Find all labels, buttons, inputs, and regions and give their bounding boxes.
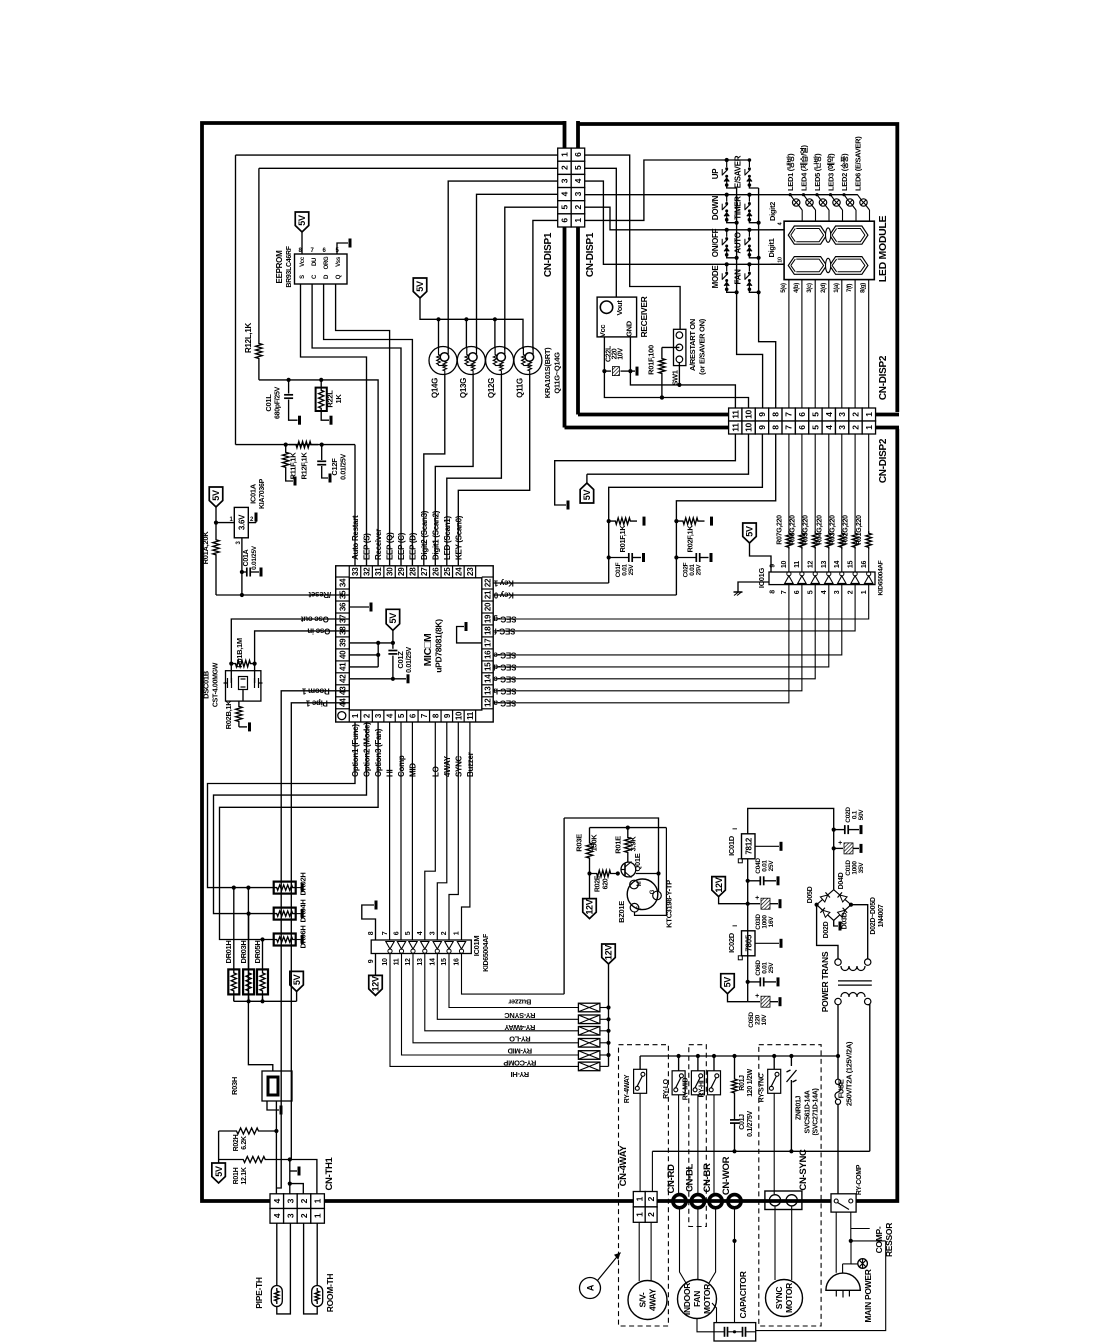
svg-text:(or E/SAVER ON): (or E/SAVER ON) [698,318,707,375]
svg-text:40: 40 [339,650,348,659]
svg-text:7: 7 [784,412,794,417]
svg-text:D04D: D04D [838,872,845,889]
svg-text:Digit1: Digit1 [767,238,776,257]
svg-text:C01J: C01J [739,1114,746,1130]
svg-text:DR06H: DR06H [299,925,308,948]
svg-text:15: 15 [441,958,448,966]
svg-text:Pipe 1: Pipe 1 [305,699,328,708]
svg-text:CN-WOR: CN-WOR [721,1156,732,1195]
relay contact RY-SYNC [773,1056,775,1069]
svg-text:20: 20 [484,602,493,611]
svg-text:3: 3 [573,191,583,196]
connector CN-WOR [728,1195,741,1208]
svg-text:8: 8 [368,931,375,935]
switch SW1 [674,329,686,365]
svg-text:25V: 25V [768,860,775,872]
5V flag for EEPROM [295,212,309,232]
connector CN-DISP2 display-board row [729,408,742,421]
svg-text:Q: Q [336,274,342,279]
capacitor C01L 680pF/25V [288,380,290,394]
svg-text:25V: 25V [628,564,635,576]
svg-text:+: + [755,993,759,1000]
svg-text:7812: 7812 [745,837,754,854]
svg-text:3: 3 [285,1198,295,1203]
svg-text:SVC561D-14A: SVC561D-14A [805,1090,812,1133]
svg-text:2: 2 [573,204,583,209]
svg-text:D03D: D03D [842,912,849,929]
buzzer drive rail to Q01E collector loop [564,818,658,891]
svg-text:IC01M: IC01M [472,936,481,957]
svg-text:R11F,1K: R11F,1K [289,452,298,480]
svg-text:SYNC: SYNC [774,1287,784,1310]
connector CN-TH1 [270,1194,284,1209]
wire MICOM pin44 Pipe 1 [291,703,349,1160]
wire Q13G emitter to MICOM pin26 Digit1 [435,375,473,566]
fuse FUSE 250V/T2A [837,1056,839,1079]
svg-text:EEP (D): EEP (D) [408,532,417,560]
wire IC01M output to RY-COMP [402,954,579,1056]
switch MODE [725,263,729,267]
7812 ground [755,845,779,847]
svg-text:CAPACITOR: CAPACITOR [738,1271,748,1318]
svg-text:R03H: R03H [230,1077,239,1095]
MICOM pin42 ground [349,678,406,680]
AC neutral line [652,1150,869,1152]
wire Digit2 pin to CN-DISP2 col8 area [771,229,785,231]
svg-text:4: 4 [573,178,583,183]
EEPROM BR93LC46RF [295,254,348,284]
relay coil RY-HI [578,1062,600,1071]
connector CN-BK [709,1195,722,1208]
transistor Q12G [486,347,514,375]
wire CN-DISP2 pin11 to ground [555,434,736,505]
svg-text:A: A [586,1284,596,1291]
resistor R02F 1K [676,518,704,524]
relay coil RY-COMP [578,1051,600,1060]
diode-resistor DR06H [274,934,296,946]
svg-text:RY-SYNC: RY-SYNC [759,1073,766,1102]
svg-text:10: 10 [781,561,788,569]
svg-text:50V: 50V [858,809,865,821]
capacitor box CAPACITOR [714,1323,756,1341]
svg-text:5V: 5V [745,526,755,537]
wire Option2 from MICOM pin2 [214,722,367,914]
resonator DSC01B CST-4.00MGW [226,671,261,701]
svg-text:12: 12 [484,698,493,707]
svg-text:31: 31 [374,567,383,576]
svg-text:8(g): 8(g) [861,283,867,293]
svg-text:BR93LC46RF: BR93LC46RF [286,245,293,287]
IC01A KIA7036P 3.6V reset [216,522,234,524]
svg-text:4WAY: 4WAY [648,1288,658,1311]
wire CN-DISP1 to receiver Vout [585,168,617,297]
svg-text:4: 4 [417,931,424,935]
5V flag MICOM VDD [386,609,400,630]
svg-text:10: 10 [382,958,389,966]
svg-text:2: 2 [851,425,861,430]
connector CN-4WAY [633,1192,645,1207]
svg-text:1: 1 [864,425,874,430]
svg-text:Digit2: Digit2 [768,202,777,221]
wire to R03H [248,888,272,1071]
svg-text:7805: 7805 [745,934,754,951]
dashed box CN-SYNC group [759,1045,821,1326]
svg-text:Osc in: Osc in [307,626,330,635]
wire receiver GND to CN-DISP2 pin11 [630,337,735,408]
7-segment Digit1 middle segment [826,258,831,272]
resistor R12L 1K [258,168,260,322]
transistor Q01E KTC3198 [621,862,636,877]
svg-text:19: 19 [484,614,493,623]
svg-text:12V: 12V [585,899,595,914]
svg-text:R05G,220: R05G,220 [803,515,810,545]
svg-text:CN-DISP2: CN-DISP2 [878,438,889,483]
svg-text:Q14G: Q14G [431,378,440,398]
svg-text:16: 16 [861,561,868,569]
connector CN-BL [691,1195,704,1208]
svg-text:12: 12 [807,561,814,569]
motor SYNC MOTOR [766,1280,803,1317]
wire buzzer drive riser [563,818,565,994]
wire IC01M output to RY-MID [413,954,578,1043]
svg-text:R01B,1M: R01B,1M [235,638,244,668]
svg-text:0.01/25V: 0.01/25V [406,647,413,673]
wire fan motor to capacitor [697,1319,714,1332]
svg-text:LED4 (제습/열): LED4 (제습/열) [798,144,808,191]
power top rail from 7812 [748,808,834,833]
svg-text:CN-4WAY: CN-4WAY [618,1145,629,1187]
svg-text:38: 38 [339,626,348,635]
svg-text:37: 37 [339,614,348,623]
12V flag main [712,877,726,897]
relay contact RY-4WAY [639,1056,641,1069]
wire MICOM pin38 Osc in [255,631,350,664]
svg-text:INDOOR: INDOOR [682,1283,692,1315]
svg-text:1: 1 [313,1198,323,1203]
svg-text:3: 3 [430,931,437,935]
wires CN-DISP2 pins 1-7 to resistors [788,434,790,531]
wires MICOM pins 39-41 [349,642,393,644]
wire scan row DOWN/TIMER/LED from CN-DISP1 [585,194,790,196]
svg-text:0.1/275V: 0.1/275V [747,1111,754,1137]
svg-text:R02F,1K: R02F,1K [686,525,695,553]
svg-text:AUTO: AUTO [734,232,743,253]
AC live rail [640,1055,838,1057]
wire key column bus 2 [759,188,776,408]
wires MICOM outputs to IC01M inputs [389,722,391,940]
svg-text:16V: 16V [768,916,775,928]
svg-text:LED1 (냉방): LED1 (냉방) [785,153,795,191]
svg-text:MAIN POWER: MAIN POWER [863,1269,873,1322]
svg-text:Q01E: Q01E [633,853,642,871]
node A circle with arrow [580,1278,601,1299]
svg-text:5: 5 [810,412,820,417]
svg-text:Vout: Vout [615,300,624,316]
svg-text:R01F,1K: R01F,1K [618,525,627,553]
svg-text:CN-RD: CN-RD [666,1164,677,1194]
buzzer BZ01E [627,879,658,910]
varistor ZNR01J [790,1056,792,1066]
svg-text:35V: 35V [858,862,865,874]
svg-text:120 1/2W: 120 1/2W [747,1069,754,1097]
svg-text:ZNR01J: ZNR01J [796,1095,803,1120]
wire Q11G emitter to MICOM pin24 KEY scan [458,375,529,566]
svg-text:CST-4.00MGW: CST-4.00MGW [213,662,220,707]
svg-text:Q11G~Q14G: Q11G~Q14G [553,352,562,394]
svg-text:LED6 (E/SAVER): LED6 (E/SAVER) [853,136,862,191]
svg-text:EEPROM: EEPROM [275,250,284,284]
svg-text:/Reset: /Reset [308,590,331,599]
svg-text:2: 2 [646,1196,656,1201]
thermistor ROOM-TH [316,1223,318,1285]
resistor R02E 620 [590,870,618,876]
svg-text:KRA101S(BRT): KRA101S(BRT) [543,347,552,398]
svg-text:12V: 12V [604,945,614,960]
svg-text:R02E: R02E [595,875,602,892]
plug MAIN POWER [826,1273,860,1290]
svg-text:C12F: C12F [330,458,339,476]
svg-text:0.01/25V: 0.01/25V [251,545,258,570]
resistor R01F 100 [662,346,680,348]
wire CN-DISP1 pin4 row to Q13G collector [477,194,558,349]
wire CN-DISP1 to SW1 select [585,155,680,329]
svg-text:CN-TH1: CN-TH1 [324,1156,335,1190]
12V flag IC01M common [375,954,377,976]
svg-text:CN-BL: CN-BL [685,1163,696,1192]
capacitor C01F 0.01 25V [628,553,630,562]
svg-text:35: 35 [339,590,348,599]
svg-text:2: 2 [441,931,448,935]
LED module segment pins to CN-DISP2 [788,280,790,408]
svg-text:R01A,20K: R01A,20K [201,531,210,565]
svg-text:LED3 (예약): LED3 (예약) [825,153,835,191]
svg-text:LED2 (송풍): LED2 (송풍) [839,153,849,191]
IC01G pin8 ground [738,582,769,592]
svg-text:2: 2 [847,590,854,594]
7-segment Digit1 half A [788,257,826,275]
svg-text:R01F,100: R01F,100 [647,345,656,375]
svg-text:COMP-: COMP- [874,1226,884,1253]
svg-text:23: 23 [466,567,475,576]
svg-text:2: 2 [299,1213,309,1218]
svg-text:5V: 5V [723,977,733,988]
svg-text:R03G,220: R03G,220 [829,515,836,545]
svg-text:1: 1 [313,1213,323,1218]
svg-text:FAN: FAN [692,1291,702,1307]
svg-text:15: 15 [484,662,493,671]
svg-text:25V: 25V [768,962,775,974]
main control board outline [202,123,897,1201]
wire IC01M output to RY-SYNC [449,954,578,1008]
svg-text:MOTOR: MOTOR [702,1284,712,1314]
svg-text:MIC□M: MIC□M [422,633,434,666]
switch FAN [748,263,752,267]
connector CN-DISP2 main-board row [729,421,742,434]
wire transformer primary left to AC rail [837,1005,839,1056]
infrared receiver module [597,297,637,337]
svg-text:Buzzer: Buzzer [508,998,531,1007]
LED D3 [815,193,818,196]
svg-text:150K: 150K [590,834,599,852]
7-segment Digit2 middle segment [826,228,831,242]
wire CN-DISP1 pin1 row to left bundle [236,154,558,156]
svg-text:C01Z: C01Z [396,651,405,669]
wire EEPROM C to MICOM pin29 [312,284,401,566]
svg-text:KID65004AF: KID65004AF [483,933,490,972]
wire R01H to CN-TH1 pin1 [290,1160,317,1194]
svg-text:TIMER: TIMER [734,196,743,220]
svg-text:1N4007: 1N4007 [878,904,885,927]
svg-text:RY-LO: RY-LO [509,1034,531,1043]
svg-text:R01H: R01H [233,1167,240,1184]
wire scan row UP/E-SAVER from CN-DISP1 [585,160,750,220]
diode-resistor DR05H [262,940,264,970]
switch E/SAVER [748,158,752,162]
svg-text:EEP (S): EEP (S) [363,533,372,560]
resistor R02H 6.2K [219,1128,277,1134]
LED D1 [789,193,792,196]
svg-text:4: 4 [272,1198,282,1203]
diode bridge D02D-D05D [833,830,835,890]
switch DOWN [725,193,729,197]
svg-text:KID65004AF: KID65004AF [878,560,885,595]
capacitor C22L 220 10V [604,370,611,372]
LED scan rail [790,194,858,196]
connector CN-DISP1 display-board column pins 6-1 [571,148,585,161]
IC01D 7812 regulator [742,834,756,859]
svg-text:RY-4WAY: RY-4WAY [624,1074,631,1103]
svg-text:RY-MID: RY-MID [507,1046,532,1055]
svg-text:4: 4 [272,1213,282,1218]
svg-text:5V: 5V [214,1166,224,1177]
svg-text:4: 4 [824,412,834,417]
wire CN-WOR to compressor line [734,1208,736,1241]
svg-text:9: 9 [368,959,375,963]
resistor R01J 120 1/2W [734,1056,736,1075]
svg-text:ON/OFF: ON/OFF [711,228,720,257]
svg-text:26: 26 [431,567,440,576]
12V flag relay common [602,944,616,964]
svg-text:34: 34 [339,578,348,587]
svg-text:FAN: FAN [734,269,743,285]
svg-text:5V: 5V [292,974,302,985]
svg-text:12V: 12V [714,877,724,892]
capacitor C01Z 0.01/25V [392,643,394,649]
resistor R11F 1K [283,445,289,475]
relay coil RY-4WAY [578,1015,600,1024]
svg-text:D02D~D05D: D02D~D05D [870,897,877,934]
7805 ground [755,942,779,944]
switch ON/OFF [725,228,729,232]
svg-text:RESSOR: RESSOR [884,1223,894,1257]
capacitor C01J 0.1/275V [734,1097,736,1120]
wires IC01G outputs to MICOM SEG pins [493,585,789,703]
wire Q14G emitter to MICOM pin27 Digit2 [424,375,445,566]
svg-text:41: 41 [339,662,348,671]
svg-text:LED5 (난방): LED5 (난방) [812,153,822,191]
svg-text:1: 1 [634,1196,644,1201]
svg-text:1: 1 [634,1212,644,1217]
wire Key0 row [493,594,676,596]
svg-text:16: 16 [454,958,461,966]
wire CN-DISP1 pin6 row to Q11G collector [533,220,558,349]
svg-text:11: 11 [466,711,475,720]
svg-text:DR01H: DR01H [224,940,233,963]
svg-text:1K: 1K [334,394,343,404]
svg-text:1: 1 [559,152,569,157]
resistor R01H 12.1K [219,1157,290,1163]
LED D5 [842,193,845,196]
LED D4 [829,193,832,196]
wires fan motor [680,1208,687,1283]
diode-resistor DR03H [248,914,250,970]
resistors R01G-R07G 220 [786,531,792,550]
capacitor C06D 0.01 25V [759,977,761,986]
svg-text:18: 18 [484,626,493,635]
svg-text:CN-DISP2: CN-DISP2 [878,355,889,400]
svg-text:30: 30 [386,567,395,576]
svg-text:MOTOR: MOTOR [784,1283,794,1313]
svg-text:R07G,220: R07G,220 [776,515,783,545]
svg-text:32: 32 [363,567,372,576]
svg-text:10: 10 [454,711,463,720]
wire Option1 from MICOM pin1 [208,722,356,888]
jumper R03H [262,1071,292,1101]
relay coil RY-MID [578,1039,600,1048]
relay coil RY-LO [578,1027,600,1036]
wire IC01M output to RY-4WAY [437,954,578,1020]
svg-text:5V: 5V [388,613,398,624]
svg-text:22: 22 [484,578,493,587]
svg-text:CN-DISP1: CN-DISP1 [543,232,554,277]
resistor R01B 1M [231,660,254,666]
resistor R12F 1K (horizontal) [289,441,318,447]
svg-text:39: 39 [339,638,348,647]
wire Option3 from MICOM pin3 [220,722,379,940]
svg-text:0.01/25V: 0.01/25V [341,454,348,480]
wire transformer primary right to neutral [868,1005,870,1152]
wire Q01E emitter to G riser [636,873,659,875]
transistor Q11G [514,347,542,375]
op-amp U1 MICOM uPD78081 44-pin frame [336,566,494,722]
svg-text:1(a): 1(a) [834,283,840,293]
5V flag thermistors [212,1163,226,1183]
svg-text:10: 10 [744,423,754,432]
5V flag option pull-up [290,971,304,991]
svg-text:25V: 25V [696,564,703,576]
svg-text:+: + [838,840,842,847]
svg-text:Digit1 (Scan2): Digit1 (Scan2) [431,510,440,560]
svg-text:8: 8 [770,590,777,594]
svg-text:CN-SYNC: CN-SYNC [798,1149,809,1191]
svg-text:CN-BR: CN-BR [702,1163,713,1193]
svg-text:DR04H: DR04H [299,899,308,922]
svg-text:D02D: D02D [823,921,830,938]
svg-text:4(b): 4(b) [794,283,800,293]
svg-text:LED MODULE: LED MODULE [877,216,889,283]
svg-text:5: 5 [810,425,820,430]
wire IC01M output to RY-LO [425,954,579,1031]
7-segment Digit1 half B [830,257,868,275]
svg-text:3: 3 [559,178,569,183]
svg-text:Q11G: Q11G [515,378,524,398]
resistor R22L 1K (boxed) [320,380,322,388]
wire CN-DISP1 pin5 row to Q12G collector [505,207,558,349]
svg-text:6: 6 [794,590,801,594]
svg-text:R02B,1K: R02B,1K [224,700,233,730]
wire EEPROM D to MICOM pin28 [324,284,413,566]
svg-text:33: 33 [351,567,360,576]
